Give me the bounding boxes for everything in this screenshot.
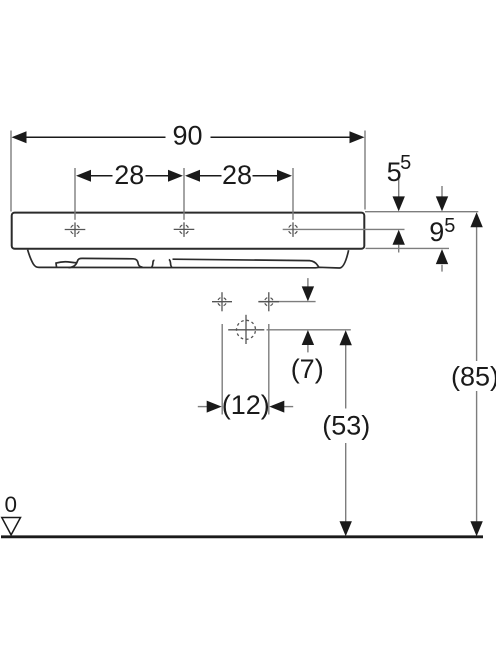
svg-text:(12): (12) [222,390,270,420]
svg-text:(53): (53) [322,410,370,440]
svg-text:5: 5 [444,215,455,237]
svg-text:28: 28 [114,160,144,190]
svg-text:(85): (85) [451,362,496,392]
svg-text:28: 28 [222,160,252,190]
svg-text:90: 90 [172,121,202,151]
svg-text:(7): (7) [291,354,324,384]
svg-text:5: 5 [400,152,411,174]
svg-text:0: 0 [5,492,18,517]
svg-text:9: 9 [429,217,444,247]
